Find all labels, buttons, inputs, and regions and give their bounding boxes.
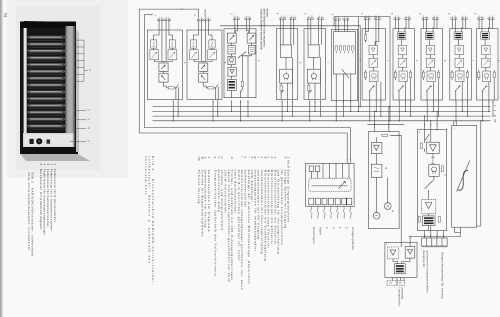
rack base and shadow bbox=[21, 147, 79, 154]
input sockets for module h UKW receiver bbox=[280, 16, 286, 20]
svg-text:8: 8 bbox=[345, 227, 349, 229]
bus line 1 Programm bbox=[153, 106, 491, 108]
wire mid horizontal upper bbox=[334, 17, 390, 121]
rack bottom panel bbox=[23, 133, 74, 148]
bus line 2 Vorrang bbox=[153, 110, 491, 112]
svg-text:M: M bbox=[384, 167, 387, 169]
module e impedance converter bbox=[362, 18, 385, 100]
input sockets for module amp 4 bbox=[478, 16, 484, 20]
photo leader lines bbox=[70, 40, 88, 141]
wire mid horizontal lower bbox=[220, 26, 360, 107]
input sockets for module a2 bbox=[197, 17, 203, 21]
bus line M bbox=[153, 115, 491, 117]
svg-text:5 Netzschalter mit Stabilisie: 5 Netzschalter mit Stabilisierungsteil bbox=[39, 164, 43, 230]
input sockets for module i Reportofon receiver bbox=[307, 16, 313, 20]
gong block o bbox=[368, 132, 399, 229]
svg-text:G: G bbox=[391, 210, 394, 212]
module amp 4 bbox=[477, 18, 499, 100]
input sockets for module e impedance converter bbox=[364, 16, 370, 20]
svg-text:p: p bbox=[214, 157, 218, 159]
svg-text:4: 4 bbox=[332, 227, 336, 229]
output amp block p bbox=[385, 237, 461, 286]
svg-text:Durchsagen: Durchsagen bbox=[312, 227, 316, 244]
wire mid upper drop bbox=[357, 17, 359, 112]
svg-text:ausgang: ausgang bbox=[401, 288, 404, 300]
scanner edge bbox=[0, 0, 2, 317]
module amp 3 bbox=[450, 18, 472, 100]
rack modules bbox=[28, 36, 65, 130]
svg-text:m: m bbox=[230, 157, 234, 160]
input sockets for module a1 bbox=[158, 17, 164, 21]
wire inner loop bbox=[145, 15, 351, 164]
module relay field bbox=[332, 19, 358, 101]
module h UKW receiver bbox=[276, 18, 298, 99]
wire top loop E second drop bbox=[204, 9, 206, 17]
wire top loop E bbox=[139, 9, 347, 163]
module a1 bbox=[147, 19, 182, 99]
svg-text:Besprechungsanlage für Vorrang: Besprechungsanlage für Vorrang bbox=[441, 253, 445, 300]
svg-text:Schiene Vorrang: Schiene Vorrang bbox=[197, 170, 201, 204]
svg-text:E: E bbox=[283, 157, 287, 159]
svg-text:Vollverstärkers: Vollverstärkers bbox=[144, 156, 148, 196]
input sockets for module amp 3 bbox=[451, 16, 457, 20]
svg-text:Gongprogramme: Gongprogramme bbox=[351, 227, 355, 250]
svg-text:Gongtonverstärker (außerhalb d: Gongtonverstärker (außerhalb des Vollver… bbox=[214, 170, 218, 278]
svg-text:m: m bbox=[418, 131, 420, 133]
output transformer l bbox=[452, 121, 481, 237]
svg-text:VA: VA bbox=[493, 119, 496, 122]
input sockets for module amp 1 bbox=[394, 16, 400, 20]
module amp 1 bbox=[393, 18, 415, 100]
strip-to-bus drop wires bbox=[172, 100, 174, 121]
keypad block n bbox=[306, 163, 355, 218]
module a2 bbox=[187, 19, 222, 99]
module amp 2 bbox=[421, 18, 443, 100]
svg-text:ohne Vorverstärkerbausteine, F: ohne Vorverstärkerbausteine, Frontansich… bbox=[27, 173, 31, 251]
direction tick inner bbox=[151, 14, 153, 16]
svg-text:2: 2 bbox=[325, 227, 329, 229]
feed arrowheads bbox=[374, 127, 375, 128]
input sockets for module amp 2 bbox=[422, 16, 428, 20]
photo: rack chassis bbox=[20, 21, 90, 161]
svg-text:l: l bbox=[240, 157, 244, 158]
svg-text:getrennten Leitungsverstärker: getrennten Leitungsverstärker bbox=[425, 251, 429, 294]
driver stage m bbox=[418, 111, 447, 238]
input sockets for module k summing amp bbox=[233, 16, 239, 20]
bus line VA bbox=[153, 120, 491, 122]
svg-text:6: 6 bbox=[338, 227, 342, 229]
input sockets for module relay field bbox=[334, 16, 340, 20]
direction tick top bbox=[181, 8, 183, 10]
module i Reportofon receiver bbox=[304, 18, 326, 99]
svg-text:VA: VA bbox=[197, 157, 201, 162]
photo backdrop bbox=[7, 0, 128, 178]
module k summing amp bbox=[224, 18, 256, 98]
output connector row bbox=[422, 238, 448, 247]
gong feed wires bbox=[367, 107, 404, 243]
keypad cables bbox=[311, 207, 313, 219]
svg-text:werden: werden bbox=[266, 9, 270, 18]
svg-text:Alarm: Alarm bbox=[319, 227, 323, 235]
